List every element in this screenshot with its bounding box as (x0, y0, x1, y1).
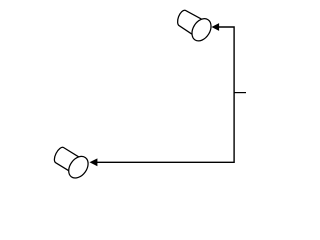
arrowhead bottom (90, 158, 98, 166)
wire (97, 27, 235, 162)
arrowhead top (212, 23, 220, 31)
node A (178, 10, 215, 44)
wire (234, 92, 246, 94)
node B (54, 147, 92, 181)
